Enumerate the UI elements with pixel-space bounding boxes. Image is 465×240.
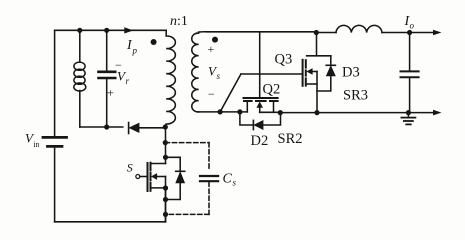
resistor clamp R lead top — [79, 30, 81, 62]
capacitor clamp Vr plates — [99, 72, 116, 78]
transformer primary phasing dot — [151, 39, 157, 45]
wire secondary bottom — [199, 111, 248, 113]
svg-text:r: r — [126, 76, 130, 86]
svg-text:s: s — [233, 178, 237, 188]
svg-text:+: + — [107, 86, 114, 100]
svg-text:SR3: SR3 — [343, 88, 368, 104]
wire source chain — [165, 188, 167, 222]
current arrow Ip — [124, 27, 133, 33]
svg-text:o: o — [410, 21, 415, 31]
body diode of S — [166, 157, 185, 199]
svg-text:D2: D2 — [251, 133, 269, 149]
transistor Q3 — [303, 33, 331, 113]
wire bottom rail right — [280, 112, 436, 114]
svg-text:S: S — [127, 161, 133, 175]
wire bottom-left rail — [55, 221, 166, 223]
svg-text:Q2: Q2 — [263, 82, 281, 98]
transistor Q2 — [244, 98, 281, 112]
svg-text:D3: D3 — [342, 65, 360, 81]
capacitor output Co lead top — [409, 33, 411, 71]
capacitor clamp Vr lead top — [106, 30, 108, 71]
diode D2 — [240, 112, 281, 130]
wire output arrow top — [410, 32, 436, 34]
battery Vin — [43, 137, 67, 146]
diode D3 — [317, 56, 335, 91]
svg-text:in: in — [33, 140, 39, 149]
transistor S — [136, 163, 166, 191]
svg-text:p: p — [132, 46, 138, 56]
svg-text:n:1: n:1 — [170, 14, 188, 29]
capacitor output Co lead bottom — [409, 78, 411, 113]
capacitor clamp Vr lead bottom — [106, 79, 108, 127]
wire left rail lower — [54, 148, 56, 222]
svg-text:+: + — [208, 42, 215, 56]
capacitor output Co plates — [401, 71, 419, 77]
output inductor L — [336, 25, 382, 32]
wire Q3 gate horizontal — [241, 73, 303, 75]
transformer secondary phasing dot — [212, 37, 218, 43]
wire secondary top rail — [199, 31, 336, 34]
svg-text:s: s — [217, 71, 221, 81]
wire top-left rail — [55, 29, 167, 31]
svg-text:−: − — [208, 87, 215, 101]
wire clamp bottom — [80, 126, 123, 128]
transformer secondary winding — [192, 32, 199, 112]
ground — [401, 113, 415, 125]
wire switch source riser — [165, 188, 167, 222]
wire inductor to output node — [382, 32, 410, 34]
resistor clamp R lead bottom — [79, 91, 81, 128]
transformer primary winding — [166, 30, 175, 127]
svg-text:C: C — [223, 172, 233, 187]
wire primary bottom node to switch — [165, 127, 167, 164]
snubber dashed box — [165, 143, 209, 215]
svg-text:SR2: SR2 — [278, 131, 303, 147]
wire left rail upper — [54, 30, 56, 136]
clamp diode — [129, 123, 166, 134]
svg-text:Q3: Q3 — [275, 52, 293, 68]
wire Q2 gate vertical — [259, 32, 261, 97]
wire Q3 gate diagonal — [220, 74, 241, 112]
capacitor Cs plates — [200, 176, 218, 181]
resistor clamp R coil — [74, 62, 86, 91]
